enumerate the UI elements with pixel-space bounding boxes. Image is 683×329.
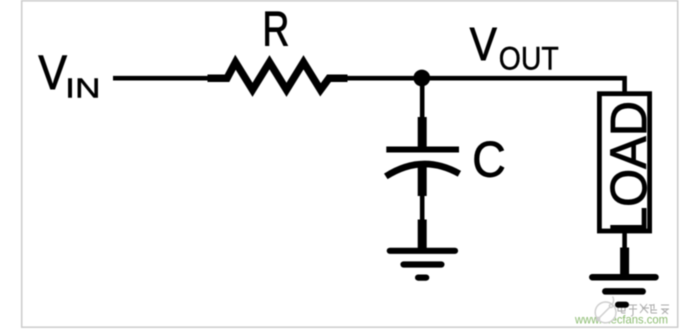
svg-text:www.elecfans.com: www.elecfans.com [574, 313, 668, 327]
watermark chinese characters [618, 303, 669, 316]
svg-text:LOAD: LOAD [600, 101, 657, 234]
svg-text:V: V [38, 46, 67, 100]
svg-text:IN: IN [65, 73, 100, 104]
resistor R1 [208, 62, 348, 90]
wire capacitor to ground [420, 194, 425, 222]
node Vin label [38, 46, 100, 103]
ground G2 bottom bar [618, 302, 626, 308]
svg-text:OUT: OUT [499, 41, 559, 77]
load box outline [599, 94, 649, 231]
wire node to capacitor [420, 78, 425, 119]
capacitor C1 top plate [386, 147, 459, 153]
capacitor C1 top lead stub [418, 117, 427, 148]
ground G1 lead stub [418, 220, 427, 251]
capacitor C1 bottom lead stub [418, 163, 427, 196]
ground G1 middle bar [404, 261, 442, 267]
wire Vin to resistor [113, 76, 212, 81]
capacitor C1 curved bottom plate [386, 164, 460, 176]
node Vout label [470, 18, 559, 77]
ground G2 lead stub [620, 248, 629, 278]
wire load to ground [622, 231, 627, 250]
svg-text:V: V [470, 18, 497, 70]
ground G2 top bar [592, 274, 655, 281]
ground G2 middle bar [605, 288, 642, 295]
node junction dot [413, 70, 430, 87]
svg-text:C: C [472, 132, 505, 188]
svg-text:R: R [262, 1, 289, 56]
watermark logo circle [595, 297, 616, 323]
ground G1 top bar [390, 248, 455, 254]
wire resistor to node and down to load [345, 78, 625, 94]
ground G1 bottom bar [418, 275, 426, 281]
